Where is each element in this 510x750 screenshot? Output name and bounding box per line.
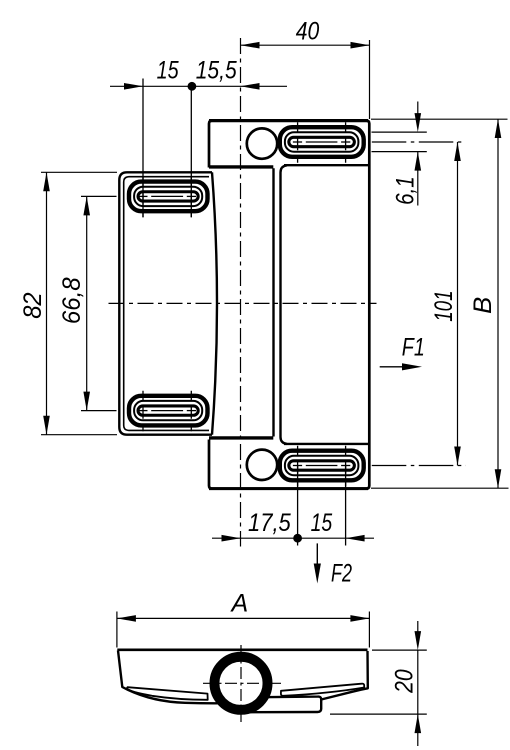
svg-text:40: 40: [296, 18, 320, 46]
svg-text:20: 20: [390, 669, 418, 693]
svg-text:A: A: [229, 590, 248, 618]
svg-text:101: 101: [430, 290, 458, 321]
svg-text:17,5: 17,5: [248, 509, 291, 537]
svg-text:66,8: 66,8: [58, 277, 86, 324]
svg-text:15,5: 15,5: [196, 57, 237, 85]
svg-text:82: 82: [19, 292, 47, 318]
svg-text:15: 15: [311, 509, 333, 537]
svg-text:15: 15: [157, 57, 179, 85]
svg-text:B: B: [469, 297, 497, 314]
svg-text:F1: F1: [402, 333, 425, 361]
svg-text:F2: F2: [331, 560, 352, 588]
svg-text:6,1: 6,1: [392, 176, 420, 205]
